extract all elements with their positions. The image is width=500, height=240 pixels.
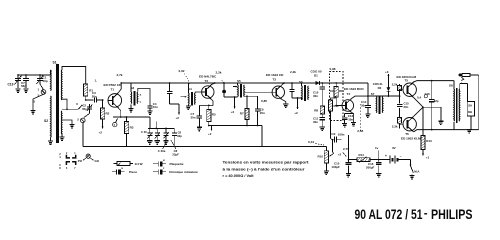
svg-text:T4: T4 — [347, 92, 351, 96]
resistor R14 47 — [357, 158, 370, 162]
wire S7 top rail — [376, 95, 399, 97]
ground under S4 — [187, 105, 189, 107]
svg-text:R3: R3 — [130, 126, 134, 130]
ground under T3 — [283, 103, 288, 105]
test point 7 — [116, 119, 118, 123]
svg-text:2,2k: 2,2k — [392, 82, 398, 86]
capacitor C16 feedback electrolytic — [431, 81, 433, 100]
svg-text:100µF: 100µF — [332, 165, 340, 169]
svg-text:Chimique miniature: Chimique miniature — [169, 170, 198, 174]
svg-text:0,85: 0,85 — [261, 99, 267, 103]
capacitor C5 decoupling — [169, 82, 171, 84]
svg-text:T1: T1 — [111, 88, 115, 92]
svg-text:S1: S1 — [53, 61, 57, 65]
svg-text:90 AL 072 / 51: 90 AL 072 / 51 — [355, 207, 423, 222]
svg-text:+: + — [385, 154, 387, 158]
IF transformer S4 — [187, 93, 190, 105]
arrow +3 supply — [387, 74, 389, 81]
ground under C7b — [197, 126, 202, 128]
switch M.A on-off — [410, 165, 413, 173]
wire T2 emitter branch — [199, 99, 213, 105]
wire R3 to bottom rail — [126, 134, 128, 147]
svg-text:10n: 10n — [153, 105, 158, 109]
wire S5 primary to bus — [237, 83, 239, 85]
connector pins 1-3 (antenna socket) — [41, 90, 46, 95]
dashed AGC box — [330, 72, 344, 121]
wire secondary top to R1 — [62, 67, 86, 85]
ground under C2a — [155, 140, 160, 142]
svg-text:Tensions en volts mesurées par: Tensions en volts mesurées par rapport — [223, 161, 310, 165]
svg-text:22µF: 22µF — [172, 153, 179, 157]
wire battery to switch — [398, 159, 411, 161]
resistor R12 — [331, 98, 337, 100]
driver transformer S7 — [375, 97, 378, 113]
ground emitter branch — [438, 120, 443, 122]
svg-text:56p: 56p — [21, 84, 26, 88]
ground under switch — [411, 175, 413, 176]
svg-text:40p: 40p — [43, 79, 48, 83]
capacitor C3 20n — [94, 97, 96, 102]
svg-text:C 20a: C 20a — [158, 149, 166, 153]
wire speaker to bottom — [470, 116, 472, 130]
wire R7 to mid rail — [246, 120, 248, 126]
capacitor C11 30n electrolytic — [321, 114, 323, 118]
capacitor C7 56p — [25, 75, 27, 79]
wire antenna input top rail — [18, 74, 51, 76]
capacitor C2 65p (trimmer) — [89, 104, 91, 107]
svg-text:2,2k: 2,2k — [216, 71, 222, 75]
wire into S4 with arrow — [181, 96, 187, 98]
earphone jack — [458, 74, 462, 77]
wire R12 down to C12 — [330, 111, 332, 139]
svg-text:+2: +2 — [208, 132, 212, 136]
wire S3 primary to bus — [130, 83, 132, 92]
svg-text:8Ω: 8Ω — [468, 110, 473, 114]
svg-text:ED 1802 KLM: ED 1802 KLM — [401, 137, 421, 141]
transistor T2 — [202, 86, 214, 98]
svg-text:C2: C2 — [83, 104, 87, 108]
wire T4 emitter to ground — [351, 112, 353, 122]
wire T1 collector to top bus — [118, 83, 121, 93]
svg-text:10k: 10k — [330, 89, 335, 93]
coil S1 secondary winding (right of core) — [60, 70, 63, 100]
wire secondary bottom to ground — [61, 133, 63, 137]
svg-text:R8: R8 — [314, 109, 318, 113]
output transformer S8 — [453, 89, 456, 121]
svg-text:S9: S9 — [468, 104, 472, 108]
arrow +2 below R2 — [102, 119, 104, 129]
svg-text:ED 1623 CD: ED 1623 CD — [266, 73, 284, 77]
svg-text:M.A: M.A — [414, 170, 420, 174]
wire mid rail under IF section — [209, 125, 262, 127]
legend resistor 1/4W — [114, 163, 118, 165]
svg-text:Piece: Piece — [129, 170, 137, 174]
svg-text:S7: S7 — [371, 92, 375, 96]
wiper arrow R10 — [330, 153, 334, 156]
legend piece capacitor — [112, 171, 116, 173]
wire secondary to band switch — [62, 108, 78, 110]
wire test point to S5 primary — [224, 96, 238, 98]
wire T6 collector rail — [414, 130, 479, 132]
label C20a with leader — [163, 140, 167, 149]
variable capacitor C2a — [156, 128, 158, 133]
svg-text:+2: +2 — [338, 153, 342, 157]
legend electrolytic miniature — [153, 171, 158, 173]
wire R5 to mid rail — [208, 122, 210, 126]
ground under S2 — [48, 140, 53, 142]
svg-text:20n: 20n — [404, 105, 409, 109]
svg-text:+2: +2 — [176, 116, 180, 120]
wire S8 primary bottom — [453, 122, 455, 130]
wire bottom long rail — [83, 145, 327, 147]
svg-text:3V: 3V — [392, 146, 396, 150]
svg-text:65p: 65p — [82, 107, 87, 111]
ground secondary bottom — [59, 136, 64, 138]
potentiometer R10 volume — [325, 146, 327, 151]
capacitor C10 30n — [321, 83, 323, 87]
dashed volume coupling line — [360, 104, 362, 133]
wire S2 bottom to ground — [50, 137, 52, 141]
wire jack contacts to S8 and speaker — [459, 84, 461, 89]
arrow +2 right of C5 — [178, 104, 180, 110]
svg-text:200µF: 200µF — [366, 166, 374, 170]
arrow +2 below S5 primary — [234, 97, 236, 109]
diode D1 detector — [316, 81, 320, 85]
ground under C19 — [15, 88, 20, 90]
capacitor C1 40p (variable) — [39, 75, 41, 79]
wire T3 emitter to ground — [282, 100, 286, 104]
svg-text:R14: R14 — [359, 153, 365, 157]
svg-text:82p: 82p — [434, 99, 439, 103]
wire T5 collector rail — [414, 81, 454, 82]
connector pin 2 — [84, 114, 90, 118]
svg-text:−: − — [400, 154, 402, 158]
svg-text:1/4 W: 1/4 W — [135, 162, 143, 166]
svg-text:2,2k: 2,2k — [290, 70, 296, 74]
wire secondary upper tap — [62, 99, 67, 109]
svg-text:10n: 10n — [348, 117, 353, 121]
resistor R7 — [244, 95, 247, 97]
svg-text:T6: T6 — [405, 132, 409, 136]
ground under T4 emitter — [351, 122, 356, 124]
transistor T4 — [342, 100, 354, 112]
capacitor C16b 200uF — [378, 160, 380, 163]
svg-text:+2: +2 — [294, 111, 298, 115]
wire T6 base — [400, 123, 403, 125]
legend plaquette capacitor — [153, 163, 158, 165]
wire T4 collector to S7 — [351, 96, 368, 99]
wire S4 primary to bus — [187, 83, 189, 93]
svg-text:D1: D1 — [314, 73, 318, 77]
wire S6 primary to bus — [301, 83, 303, 86]
svg-text:30n: 30n — [313, 94, 318, 98]
svg-text:T2: T2 — [205, 79, 209, 83]
label C8 22uF with leader — [171, 140, 176, 149]
svg-text:S2: S2 — [44, 119, 48, 123]
resistor R13 — [422, 107, 424, 135]
wire S3 primary bottom to ground — [130, 105, 132, 109]
svg-text:R5: R5 — [212, 113, 216, 117]
svg-text:S8: S8 — [449, 84, 453, 88]
arrow +2 under S6 — [297, 98, 299, 109]
svg-text:PHILIPS: PHILIPS — [431, 207, 473, 222]
svg-text:T5: T5 — [405, 79, 409, 83]
resistor R8 — [320, 106, 324, 114]
capacitor C8 90p — [173, 128, 175, 133]
arrow +2 on mid rail — [211, 126, 213, 131]
capacitor decoupling at S6 — [291, 83, 293, 89]
svg-text:20n: 20n — [92, 94, 97, 98]
ground under connector — [30, 110, 35, 112]
svg-text:PO: PO — [78, 159, 83, 163]
IF transformer S5 — [237, 85, 240, 97]
capacitor C14 30n — [367, 96, 369, 105]
test point socket on bus — [223, 82, 225, 84]
svg-text:+2: +2 — [99, 131, 103, 135]
coil S1 (antenna rod upper winding) — [50, 70, 53, 91]
capacitor C15b 100uF — [347, 160, 349, 163]
wire T3 collector to bus — [282, 83, 284, 84]
svg-text:2,3k: 2,3k — [392, 125, 398, 129]
tuning gang top wire — [148, 127, 174, 129]
svg-text:100n: 100n — [338, 133, 345, 137]
svg-text:D2: D2 — [378, 86, 382, 90]
svg-text:Plaquette: Plaquette — [170, 162, 184, 166]
wire S5 secondary to T3 base — [245, 91, 273, 93]
capacitor C15 20n in base line — [397, 103, 403, 105]
wire connector to ground — [33, 94, 44, 110]
svg-text:2,7k: 2,7k — [117, 73, 123, 77]
capacitor C7b 30n emitter bypass — [198, 105, 200, 115]
resistor R11 10k — [335, 83, 337, 87]
svg-text:C8: C8 — [178, 131, 182, 135]
svg-text:0,44: 0,44 — [308, 140, 314, 144]
ground under R10 — [325, 163, 327, 171]
ground under C11 — [320, 126, 325, 128]
capacitor C13 10n — [345, 113, 354, 115]
transistor T6 — [403, 118, 416, 131]
svg-text:R2: R2 — [106, 112, 110, 116]
speaker S9 8 ohm — [467, 101, 474, 116]
svg-text:+3: +3 — [385, 70, 389, 74]
coil S2 (antenna rod lower winding) — [50, 96, 53, 137]
ground S3 — [128, 108, 133, 110]
svg-text:2,58: 2,58 — [357, 129, 363, 133]
svg-text:C16: C16 — [425, 92, 431, 96]
svg-text:1v: 1v — [375, 146, 379, 150]
wire S4 secondary to T2 base — [195, 92, 202, 93]
ground under C4 — [147, 110, 152, 112]
svg-text:C 20: C 20 — [141, 130, 147, 134]
wire T2 collector to bus — [212, 83, 215, 85]
resistor R1 — [84, 84, 88, 96]
wire emitter to ground branch — [423, 106, 441, 108]
svg-text:+1: +1 — [426, 156, 430, 160]
svg-text:20n: 20n — [260, 111, 265, 115]
wire R1 to base node — [85, 96, 87, 100]
resistor R3 — [126, 117, 128, 122]
svg-text:0,98: 0,98 — [330, 67, 336, 71]
wire emitters join — [413, 97, 423, 107]
capacitor C19 (trimmer) — [17, 75, 19, 79]
svg-text:2,7V: 2,7V — [343, 147, 349, 151]
svg-text:R7: R7 — [240, 112, 244, 116]
ground under C14 — [365, 113, 370, 115]
IF transformer S6 — [301, 86, 304, 100]
svg-text:C12: C12 — [330, 132, 336, 136]
ground under C2b — [163, 140, 168, 142]
wire R11 to T4 base — [335, 97, 337, 106]
svg-text:0,62: 0,62 — [179, 69, 185, 73]
wire T5 base — [400, 89, 403, 91]
transistor T5 — [403, 83, 416, 96]
ground under C7 — [23, 88, 28, 90]
band switch contact 6 — [79, 106, 82, 109]
svg-text:r = 40.000Ω / Volt: r = 40.000Ω / Volt — [223, 174, 255, 178]
ground under C16b — [376, 173, 381, 175]
arrow +1 below R13 — [422, 150, 424, 156]
svg-text:à la masse (−) à l’aide d’un c: à la masse (−) à l’aide d’un contrôleur — [223, 167, 306, 171]
svg-text:30n: 30n — [191, 115, 196, 119]
svg-text:GO: GO — [95, 159, 100, 163]
ferrite core bar — [56, 64, 59, 143]
svg-text:30n: 30n — [313, 120, 318, 124]
resistor R5 — [208, 105, 210, 109]
wire S3 secondary to C4 — [138, 89, 150, 107]
svg-text:+2: +2 — [231, 110, 235, 114]
wire connector 2 down to bottom rail — [82, 123, 84, 147]
IF transformer S3 — [130, 92, 133, 104]
wire supply node 2,7V — [347, 135, 349, 160]
svg-text:R10: R10 — [318, 155, 324, 159]
wire jack to right rail — [470, 74, 479, 76]
wire T1 emitter node — [118, 108, 121, 111]
ground under C13 — [342, 123, 347, 125]
transistor T3 — [272, 86, 284, 98]
variable capacitor C2b — [165, 128, 167, 133]
svg-text:30n: 30n — [361, 103, 366, 107]
svg-text:R12: R12 — [334, 104, 340, 108]
ground under C15b — [346, 173, 351, 175]
capacitor C12 100n — [333, 139, 335, 141]
svg-text:ED 1623 BCD: ED 1623 BCD — [344, 87, 364, 91]
wire S8 primary top — [453, 81, 455, 89]
svg-text:C19: C19 — [8, 83, 14, 87]
capacitor C9 20n — [247, 95, 258, 97]
svg-text:ED N4L7BC: ED N4L7BC — [199, 75, 217, 79]
ground bottom right — [467, 129, 472, 131]
diode D2 — [387, 81, 389, 87]
wire power rail horizontal — [348, 159, 390, 161]
svg-text:R13: R13 — [426, 139, 432, 143]
svg-text:1,: 1, — [95, 79, 98, 83]
ground under C20 — [147, 140, 152, 142]
svg-text:90p: 90p — [177, 134, 182, 138]
svg-text:T3: T3 — [273, 78, 277, 82]
transistor T1 — [108, 94, 122, 108]
svg-text:ED P502 CD: ED P502 CD — [104, 83, 122, 87]
svg-text:S5: S5 — [237, 79, 241, 83]
svg-text:S6: S6 — [299, 80, 303, 84]
resistor R2 — [102, 100, 104, 108]
svg-text:0,4: 0,4 — [417, 96, 422, 100]
ground mid tap — [69, 124, 74, 126]
capacitor C4 10n — [147, 105, 152, 107]
wire top supply bus — [121, 82, 368, 84]
wire S7 secondary base feed — [399, 84, 401, 85]
wire secondary mid tap to ground — [62, 120, 72, 124]
svg-text:-: - — [424, 208, 428, 220]
